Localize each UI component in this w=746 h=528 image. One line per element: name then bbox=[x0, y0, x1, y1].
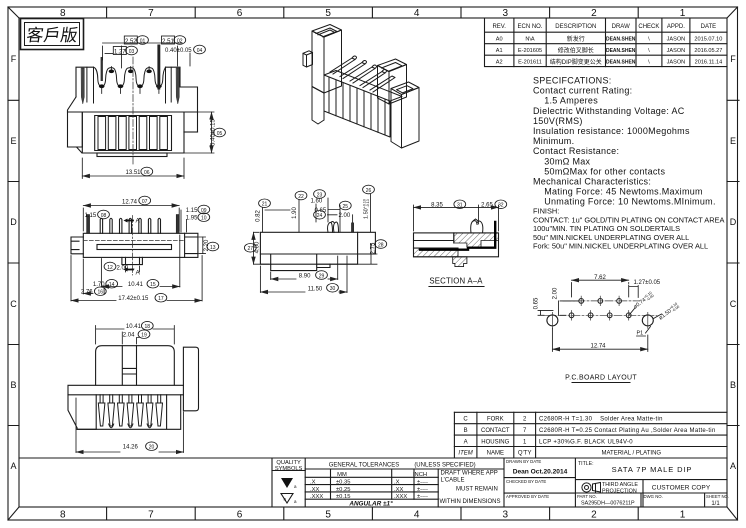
svg-text:2.51: 2.51 bbox=[162, 39, 174, 45]
top view bottom tab bbox=[122, 257, 142, 264]
dimension 05 5.40±0.15 bbox=[169, 112, 225, 153]
svg-text:2.65: 2.65 bbox=[481, 203, 493, 209]
material table bbox=[454, 412, 727, 458]
side view inner verticals bbox=[271, 254, 317, 264]
svg-text:1.27: 1.27 bbox=[114, 49, 126, 55]
svg-text:C: C bbox=[730, 299, 737, 309]
svg-text:B: B bbox=[730, 380, 736, 390]
svg-text:Mechanical Characteristics:: Mechanical Characteristics: bbox=[533, 177, 651, 187]
svg-text:结构DIP脚变更公关: 结构DIP脚变更公关 bbox=[550, 58, 602, 66]
svg-text:ANGULAR ±1°: ANGULAR ±1° bbox=[348, 499, 393, 507]
dimension 15 10.41 bbox=[147, 279, 159, 288]
svg-text:JASON: JASON bbox=[667, 37, 686, 43]
svg-text:8: 8 bbox=[60, 510, 66, 521]
corner diagonal top-left bbox=[8, 7, 19, 18]
front view housing top block bbox=[76, 67, 198, 132]
svg-text:DATE: DATE bbox=[701, 24, 717, 30]
side view main body bbox=[260, 232, 357, 264]
front view end cavities bbox=[87, 67, 171, 103]
svg-text:E: E bbox=[10, 136, 16, 146]
svg-text:7: 7 bbox=[148, 8, 154, 19]
svg-text:INCH: INCH bbox=[413, 472, 427, 478]
svg-text:1.60: 1.60 bbox=[311, 199, 323, 205]
svg-text:14.26: 14.26 bbox=[123, 445, 139, 451]
front view left fork pin bbox=[81, 68, 84, 104]
dimension 29 8.90 bbox=[316, 271, 328, 280]
pcb dim 0.65 bbox=[538, 310, 553, 315]
dimension 19 2.04 bbox=[138, 330, 150, 339]
svg-text:A: A bbox=[730, 461, 736, 471]
svg-text:F: F bbox=[11, 54, 17, 64]
svg-text:24: 24 bbox=[317, 213, 323, 219]
svg-text:6: 6 bbox=[237, 510, 243, 521]
top view right wing lines bbox=[185, 233, 198, 257]
svg-text:12.74: 12.74 bbox=[590, 344, 606, 350]
dimension 24 bbox=[314, 211, 326, 220]
svg-text:30mΩ Max: 30mΩ Max bbox=[533, 156, 591, 166]
iso main body bbox=[324, 75, 390, 137]
svg-text:1.5 Amperes: 1.5 Amperes bbox=[533, 96, 598, 106]
iso right end block bbox=[391, 82, 419, 95]
svg-text:CHECK: CHECK bbox=[638, 24, 659, 30]
svg-text:DEAN.SHEN: DEAN.SHEN bbox=[606, 37, 636, 43]
svg-text:ø1.50+0.10-0.00: ø1.50+0.10-0.00 bbox=[657, 302, 680, 322]
svg-text:2.76: 2.76 bbox=[81, 290, 93, 296]
svg-text:DWG NO.: DWG NO. bbox=[644, 494, 663, 499]
svg-text:5: 5 bbox=[325, 510, 331, 521]
svg-text:C2680R-H T=1.30 Solder Area: C2680R-H T=1.30 Solder Area Matte-tin bbox=[539, 417, 663, 423]
svg-text:19: 19 bbox=[141, 333, 147, 339]
svg-text:C: C bbox=[463, 417, 468, 423]
svg-text:8.90: 8.90 bbox=[299, 274, 311, 280]
iso left flag bbox=[307, 53, 313, 68]
section dim 8.35 (31) bbox=[414, 200, 507, 231]
svg-text:05: 05 bbox=[217, 131, 223, 137]
bottom view top block bbox=[96, 346, 175, 385]
svg-text:SATA 7P MALE DIP: SATA 7P MALE DIP bbox=[612, 465, 693, 474]
section line A-A bbox=[132, 216, 134, 276]
svg-text:.X: .X bbox=[394, 480, 400, 486]
svg-text:C2680R-H T=0.25 Contact Platin: C2680R-H T=0.25 Contact Plating Au ,Sold… bbox=[539, 428, 716, 434]
svg-text:1.27±0.05: 1.27±0.05 bbox=[634, 280, 661, 286]
svg-text:Q’TY: Q’TY bbox=[518, 451, 532, 457]
svg-text:(UNLESS SPECIFIED): (UNLESS SPECIFIED) bbox=[414, 463, 475, 469]
svg-text:DESCRIPTION: DESCRIPTION bbox=[555, 24, 596, 30]
svg-text:1.15: 1.15 bbox=[186, 208, 198, 214]
svg-text:E-201611: E-201611 bbox=[518, 60, 542, 66]
section hatched bottom strip bbox=[414, 248, 459, 257]
svg-text:17: 17 bbox=[158, 296, 164, 302]
svg-text:P.C.BOARD LAYOUT: P.C.BOARD LAYOUT bbox=[565, 375, 637, 382]
draft cell bbox=[440, 471, 501, 506]
svg-text:17.42±0.15: 17.42±0.15 bbox=[118, 296, 149, 302]
svg-text:.XXX: .XXX bbox=[310, 494, 323, 500]
top view left latch bbox=[71, 237, 83, 254]
svg-text:0.40±0.05: 0.40±0.05 bbox=[165, 48, 192, 54]
side view mid line bbox=[260, 253, 375, 255]
svg-text:SHEET NO.: SHEET NO. bbox=[706, 494, 729, 499]
front view contact pin in valley 1 bbox=[101, 57, 103, 81]
svg-text:.XX: .XX bbox=[394, 487, 403, 493]
svg-text:1: 1 bbox=[680, 8, 686, 19]
svg-text:50mΩMax for other contacts: 50mΩMax for other contacts bbox=[533, 166, 665, 176]
svg-text:2: 2 bbox=[523, 417, 527, 423]
bottom strip frame bbox=[19, 458, 727, 507]
front view right fork pin bbox=[176, 68, 179, 104]
svg-text:4: 4 bbox=[414, 8, 420, 19]
dimension 12 2.00 bbox=[104, 262, 116, 271]
bottom band zone dividers bbox=[107, 507, 639, 520]
svg-text:A0: A0 bbox=[496, 37, 503, 43]
dimension 27 4.00 bbox=[244, 244, 256, 253]
pcb centerlines bbox=[544, 296, 657, 328]
svg-text:客戶版: 客戶版 bbox=[25, 26, 79, 45]
svg-text:50u" MIN.NICKEL UNDERPLATING O: 50u" MIN.NICKEL UNDERPLATING OVER ALL bbox=[533, 233, 689, 242]
bottom view base band bbox=[68, 385, 183, 395]
dimension 01 boxed 2.52 bbox=[103, 36, 183, 68]
svg-text:THIRD ANGLE: THIRD ANGLE bbox=[602, 482, 638, 488]
svg-text:30: 30 bbox=[330, 286, 336, 292]
svg-text:CUSTOMER COPY: CUSTOMER COPY bbox=[652, 485, 711, 492]
svg-text:29: 29 bbox=[319, 273, 325, 279]
dimension 02 boxed 2.51 bbox=[162, 36, 186, 45]
svg-text:7: 7 bbox=[148, 510, 154, 521]
pcb dim 12.74 bbox=[552, 348, 647, 350]
front view bottom lip bbox=[97, 153, 167, 157]
svg-text:PROJECTION: PROJECTION bbox=[602, 489, 637, 495]
svg-text:DRAWN BY DATE: DRAWN BY DATE bbox=[506, 459, 541, 464]
dimension 04 0.40±0.05 bbox=[194, 45, 206, 54]
svg-text:Contact current Rating:: Contact current Rating: bbox=[533, 86, 632, 96]
svg-text:SYMBOLS: SYMBOLS bbox=[275, 466, 303, 472]
svg-text:CHECKED BY DATE: CHECKED BY DATE bbox=[506, 479, 546, 484]
svg-text:B: B bbox=[10, 380, 16, 390]
svg-text:ECN NO.: ECN NO. bbox=[517, 24, 542, 30]
svg-text:2016.05.27: 2016.05.27 bbox=[694, 48, 722, 54]
iso lower left leg bbox=[312, 87, 324, 125]
svg-text:8: 8 bbox=[60, 8, 66, 19]
zone labels right bbox=[730, 54, 737, 471]
svg-text:SECTION A–A: SECTION A–A bbox=[429, 277, 483, 286]
svg-text:SPECIFCATIONS:: SPECIFCATIONS: bbox=[533, 76, 612, 86]
corner diagonal top-right bbox=[727, 7, 738, 18]
svg-text:04: 04 bbox=[197, 48, 203, 54]
svg-text:C: C bbox=[10, 299, 17, 309]
svg-text:20: 20 bbox=[149, 445, 155, 451]
svg-text:13.51: 13.51 bbox=[125, 170, 141, 176]
top view 7 pins bbox=[100, 218, 160, 233]
svg-text:1.90: 1.90 bbox=[292, 207, 298, 219]
svg-text:1.15: 1.15 bbox=[85, 213, 97, 219]
svg-text:4: 4 bbox=[414, 510, 420, 521]
svg-text:12.74: 12.74 bbox=[122, 199, 138, 205]
front view skirt body bbox=[82, 112, 184, 153]
svg-text:\: \ bbox=[648, 37, 650, 43]
svg-text:F: F bbox=[730, 54, 736, 64]
svg-text:10.41: 10.41 bbox=[128, 282, 144, 288]
svg-text:7: 7 bbox=[523, 428, 527, 434]
section bent contact thick bbox=[420, 222, 495, 250]
svg-text:±0.25: ±0.25 bbox=[336, 487, 350, 493]
svg-text:MM: MM bbox=[337, 472, 347, 478]
bottom view right wing bbox=[183, 347, 198, 411]
svg-text:25: 25 bbox=[343, 204, 349, 210]
top view body bbox=[83, 233, 198, 257]
svg-text:APPROVED BY DATE: APPROVED BY DATE bbox=[506, 494, 549, 499]
zone labels bottom bbox=[60, 510, 686, 521]
svg-text:a: a bbox=[294, 484, 297, 489]
svg-text:D: D bbox=[730, 217, 737, 227]
svg-text:21: 21 bbox=[262, 202, 268, 208]
iso left tower bbox=[312, 25, 342, 38]
svg-text:28: 28 bbox=[378, 242, 384, 248]
bottom view left lower block bbox=[68, 395, 96, 430]
svg-text:22: 22 bbox=[298, 194, 304, 200]
svg-text:ITEM: ITEM bbox=[458, 451, 472, 457]
pcb dim 7.62 bbox=[572, 279, 629, 281]
svg-text:5.40±0.15: 5.40±0.15 bbox=[211, 119, 217, 146]
svg-text:DEAN.SHEN: DEAN.SHEN bbox=[606, 48, 636, 54]
side view bottom lip bbox=[271, 264, 330, 270]
side view dark pin bbox=[351, 223, 353, 233]
svg-text:MUST REMAIN: MUST REMAIN bbox=[456, 487, 498, 493]
svg-text:A2: A2 bbox=[496, 60, 503, 66]
quality symbols bbox=[275, 460, 303, 472]
svg-text:GENERAL TOLERANCES: GENERAL TOLERANCES bbox=[329, 463, 400, 469]
side view right wing bbox=[358, 232, 376, 254]
front view left chamfer and wing bbox=[68, 97, 83, 153]
svg-text:2015.07.10: 2015.07.10 bbox=[694, 37, 722, 43]
svg-text:2.00: 2.00 bbox=[339, 213, 351, 219]
front view left wing inner edge bbox=[68, 112, 83, 147]
drawn by block bbox=[506, 459, 549, 499]
svg-text:D: D bbox=[10, 217, 17, 227]
pcb small holes bottom row bbox=[569, 299, 631, 318]
dimension 28 2.75 bbox=[375, 240, 387, 249]
svg-text:Insulation resistance: 1000Meg: Insulation resistance: 1000Megohms bbox=[533, 126, 690, 136]
svg-text:0.82: 0.82 bbox=[256, 210, 262, 222]
svg-text:150V(RMS): 150V(RMS) bbox=[533, 116, 583, 126]
svg-text:TITLE:: TITLE: bbox=[578, 461, 594, 467]
svg-text:FINISH:: FINISH: bbox=[533, 207, 559, 216]
dimension 03 boxed 1.27 bbox=[105, 46, 137, 55]
svg-text:A: A bbox=[464, 439, 468, 445]
svg-text:3: 3 bbox=[503, 510, 509, 521]
svg-text:L’CABLE: L’CABLE bbox=[441, 478, 465, 484]
svg-text:B: B bbox=[464, 428, 468, 434]
dimension 17 17.42±0.15 bbox=[155, 293, 167, 302]
svg-text:13: 13 bbox=[210, 245, 216, 251]
svg-text:A1: A1 bbox=[496, 48, 503, 54]
svg-text:FORK: FORK bbox=[487, 417, 504, 423]
front view centerline bbox=[132, 57, 134, 164]
bottom view bottom edge bbox=[77, 395, 181, 430]
svg-text:Dean Oct.20.2014: Dean Oct.20.2014 bbox=[513, 469, 568, 476]
svg-text:.X: .X bbox=[310, 480, 316, 486]
bottom view center tab bbox=[122, 346, 136, 385]
section hatched tab below bbox=[453, 257, 467, 267]
dimension 06 13.51 bbox=[82, 158, 184, 179]
svg-text:SA295DH—0076211P: SA295DH—0076211P bbox=[581, 501, 635, 507]
specifications text bbox=[533, 76, 716, 207]
front view contact slots comb bbox=[98, 117, 167, 150]
svg-text:NAME: NAME bbox=[487, 451, 504, 457]
svg-text:CONTACT: CONTACT bbox=[481, 428, 510, 434]
svg-text:修改伯叉脚长: 修改伯叉脚长 bbox=[558, 46, 594, 54]
svg-text:DRAFT WHERE APP: DRAFT WHERE APP bbox=[441, 471, 498, 477]
svg-text:±0.35: ±0.35 bbox=[336, 480, 350, 486]
svg-text:±----: ±---- bbox=[417, 480, 428, 486]
svg-text:DEAN.SHEN: DEAN.SHEN bbox=[606, 60, 636, 66]
svg-text:7.62: 7.62 bbox=[594, 275, 606, 281]
svg-text:.XXX: .XXX bbox=[394, 494, 407, 500]
svg-text:REV.: REV. bbox=[492, 24, 506, 30]
corner diagonal bottom-right bbox=[727, 507, 738, 520]
svg-text:100u"MIN. TIN PLATING ON SOLDE: 100u"MIN. TIN PLATING ON SOLDERTAILS bbox=[533, 224, 680, 233]
svg-text:16: 16 bbox=[98, 290, 104, 296]
svg-text:A: A bbox=[10, 461, 16, 471]
dimension 07 12.74 bbox=[83, 196, 179, 231]
section contact hump bbox=[471, 219, 483, 233]
svg-text:1/1: 1/1 bbox=[711, 501, 720, 507]
dimension 10 1.95 bbox=[198, 213, 210, 222]
pcb dim 2.00 bbox=[559, 301, 579, 315]
svg-text:08: 08 bbox=[101, 213, 107, 219]
dimension 14 1.70 bbox=[106, 279, 118, 288]
iso right tower bbox=[378, 59, 407, 72]
bottom view pins bbox=[98, 395, 162, 428]
svg-text:1.50+0.10-0.13: 1.50+0.10-0.13 bbox=[363, 199, 371, 219]
svg-text:Contact Resistance:: Contact Resistance: bbox=[533, 146, 619, 156]
svg-text:01: 01 bbox=[140, 38, 146, 44]
iso pins row bbox=[330, 58, 355, 74]
svg-text:18: 18 bbox=[145, 324, 151, 330]
svg-text:2: 2 bbox=[591, 510, 597, 521]
right band zone dividers bbox=[727, 100, 739, 425]
revision table bbox=[485, 18, 728, 67]
svg-text:HOUSING: HOUSING bbox=[481, 439, 509, 445]
pcb hole P1 left bbox=[547, 315, 653, 326]
svg-text:1: 1 bbox=[680, 510, 686, 521]
svg-text:1: 1 bbox=[523, 439, 527, 445]
svg-text:14: 14 bbox=[109, 282, 115, 288]
svg-text:±----: ±---- bbox=[417, 487, 428, 493]
svg-text:新发行: 新发行 bbox=[567, 35, 585, 43]
svg-text:JASON: JASON bbox=[667, 48, 686, 54]
svg-text:\: \ bbox=[648, 60, 650, 66]
top band zone dividers bbox=[107, 7, 639, 18]
front view contact pin in valley 4 thick bbox=[157, 45, 160, 90]
svg-text:07: 07 bbox=[142, 199, 148, 205]
svg-text:Fork: 50u" MIN.NICKEL UNDERPLA: Fork: 50u" MIN.NICKEL UNDERPLATING OVER … bbox=[533, 242, 708, 251]
dimension 30 11.50 bbox=[327, 284, 339, 293]
dimension 16 2.76 bbox=[94, 287, 106, 296]
svg-text:8.35: 8.35 bbox=[431, 203, 443, 209]
svg-text:A: A bbox=[136, 218, 141, 225]
svg-text:2.04: 2.04 bbox=[123, 333, 135, 339]
third angle projection symbol bbox=[582, 483, 601, 493]
svg-text:03: 03 bbox=[129, 49, 135, 55]
svg-text:31: 31 bbox=[457, 203, 463, 209]
svg-text:Minimum.: Minimum. bbox=[533, 136, 574, 146]
top view inner slot bbox=[97, 245, 172, 250]
svg-text:±----: ±---- bbox=[417, 494, 428, 500]
dimension 08 1.15 bbox=[98, 210, 110, 219]
svg-text:2.00: 2.00 bbox=[553, 287, 559, 299]
svg-text:32: 32 bbox=[498, 203, 504, 209]
svg-text:2.52: 2.52 bbox=[125, 39, 137, 45]
svg-text:DRAW: DRAW bbox=[612, 24, 630, 30]
corner diagonal bottom-left bbox=[8, 507, 19, 520]
svg-text:MATERIAL / PLATING: MATERIAL / PLATING bbox=[602, 451, 662, 457]
svg-text:0.65: 0.65 bbox=[534, 297, 540, 309]
front view contact tip dots bbox=[99, 70, 162, 89]
svg-text:5: 5 bbox=[325, 8, 331, 19]
dimension 25 0.65 bbox=[339, 201, 351, 210]
svg-text:E-201605: E-201605 bbox=[518, 48, 542, 54]
front view upper/lower joint line bbox=[68, 111, 198, 113]
section hatched top-right block bbox=[454, 233, 499, 247]
svg-text:N\A: N\A bbox=[525, 37, 535, 43]
front view right step bottom bbox=[184, 131, 198, 133]
side view top contact spring bbox=[328, 222, 339, 233]
svg-text:02: 02 bbox=[177, 38, 183, 44]
svg-text:±0.15: ±0.15 bbox=[336, 494, 350, 500]
svg-text:26: 26 bbox=[366, 188, 372, 194]
front view wavy top contacts bbox=[87, 67, 171, 103]
svg-text:11.50: 11.50 bbox=[308, 286, 323, 292]
svg-text:Dielectric Withstanding Voltag: Dielectric Withstanding Voltage: AC bbox=[533, 106, 685, 116]
svg-text:E: E bbox=[730, 136, 736, 146]
svg-text:10: 10 bbox=[201, 216, 207, 222]
svg-text:06: 06 bbox=[144, 170, 150, 176]
svg-text:a: a bbox=[294, 499, 297, 504]
svg-text:\: \ bbox=[648, 48, 650, 54]
svg-text:Unmating Force: 10 Newtoms.MIn: Unmating Force: 10 Newtoms.MInimum. bbox=[533, 197, 716, 207]
top view hidden line bbox=[83, 240, 184, 242]
dimension 23 1.60 bbox=[314, 190, 326, 199]
front view skirt inner cavity bbox=[95, 116, 172, 151]
svg-text:10.41: 10.41 bbox=[126, 324, 142, 330]
svg-text:Mating Force: 45 Newtoms.Maxim: Mating Force: 45 Newtoms.Maximum bbox=[533, 187, 703, 197]
dimension 09 1.15 bbox=[198, 205, 210, 214]
section body outline bbox=[414, 233, 499, 257]
dimension 26 1.50 bbox=[363, 185, 375, 194]
svg-text:2016.11.14: 2016.11.14 bbox=[695, 60, 723, 66]
zone labels top bbox=[60, 8, 686, 19]
svg-text:APPD.: APPD. bbox=[667, 24, 685, 30]
svg-text:LCP +30%G.F. BLACK UL94V-0: LCP +30%G.F. BLACK UL94V-0 bbox=[539, 439, 633, 445]
svg-text:23: 23 bbox=[317, 192, 323, 198]
dimension 13 2.20 bbox=[199, 237, 219, 254]
zone labels left bbox=[10, 54, 17, 471]
dimension 22 1.90 bbox=[295, 191, 307, 200]
svg-text:CONTACT: 1u" GOLD/TIN PLATING: CONTACT: 1u" GOLD/TIN PLATING ON CONTACT… bbox=[533, 215, 724, 224]
svg-text:15: 15 bbox=[150, 282, 156, 288]
svg-text:.XX: .XX bbox=[310, 487, 319, 493]
svg-text:1.95: 1.95 bbox=[186, 216, 198, 222]
svg-text:3: 3 bbox=[503, 8, 509, 19]
top view right fork pin dark bbox=[176, 215, 179, 234]
svg-text:27: 27 bbox=[248, 246, 254, 252]
dimension 20 14.26 bbox=[146, 442, 158, 451]
customer stamp box bbox=[21, 19, 84, 50]
svg-text:2.00: 2.00 bbox=[117, 265, 129, 271]
top view left fork pin dark bbox=[87, 215, 90, 234]
svg-text:JASON: JASON bbox=[667, 60, 686, 66]
svg-text:12: 12 bbox=[107, 265, 113, 271]
dimension 21 0.82 bbox=[259, 199, 271, 208]
